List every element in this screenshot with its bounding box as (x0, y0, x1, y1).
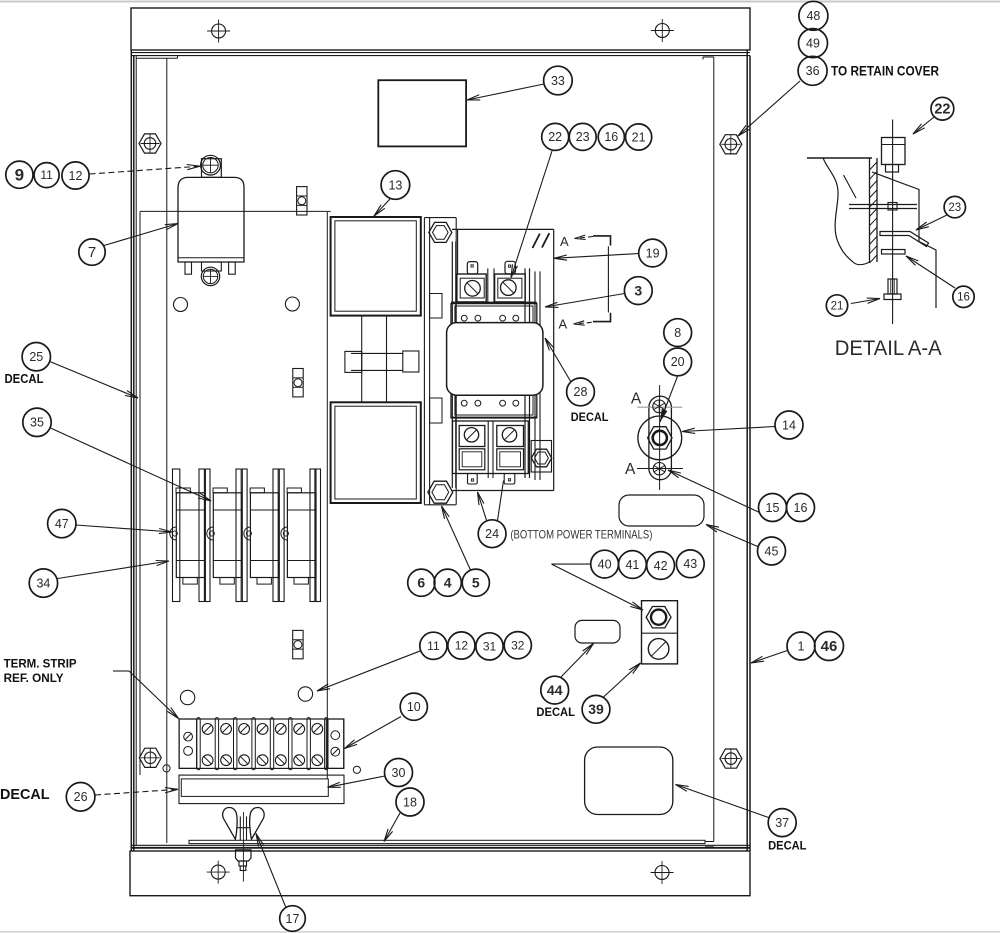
svg-text:DETAIL A-A: DETAIL A-A (835, 336, 943, 360)
svg-text:12: 12 (455, 639, 469, 653)
svg-text:DECAL: DECAL (536, 707, 575, 719)
svg-text:8: 8 (674, 326, 681, 340)
svg-text:DECAL: DECAL (5, 372, 44, 386)
svg-text:36: 36 (806, 64, 820, 78)
svg-text:34: 34 (36, 576, 50, 590)
svg-text:32: 32 (511, 638, 525, 652)
svg-text:33: 33 (551, 74, 565, 88)
svg-text:A: A (559, 317, 568, 332)
svg-text:46: 46 (821, 638, 838, 655)
svg-text:A: A (625, 461, 636, 478)
svg-text:13: 13 (388, 178, 402, 192)
svg-text:16: 16 (794, 501, 808, 515)
svg-text:TERM. STRIP: TERM. STRIP (4, 656, 77, 670)
svg-text:31: 31 (483, 639, 497, 653)
svg-text:10: 10 (407, 700, 421, 714)
svg-text:A: A (560, 234, 569, 249)
svg-text:43: 43 (683, 557, 697, 571)
svg-text:A: A (631, 390, 642, 407)
svg-text:22: 22 (934, 102, 950, 118)
svg-text:7: 7 (88, 244, 96, 261)
svg-text:49: 49 (806, 36, 820, 50)
svg-text:DECAL: DECAL (0, 786, 50, 803)
svg-text:23: 23 (576, 130, 590, 144)
svg-text:25: 25 (29, 350, 43, 364)
svg-text:12: 12 (69, 169, 83, 183)
svg-text:4: 4 (444, 574, 452, 590)
svg-text:40: 40 (598, 557, 612, 571)
svg-text:3: 3 (634, 282, 642, 298)
svg-text:15: 15 (766, 501, 780, 515)
svg-text:21: 21 (831, 300, 844, 312)
svg-text:18: 18 (403, 795, 417, 809)
svg-text:41: 41 (625, 558, 639, 572)
svg-text:19: 19 (646, 246, 660, 260)
svg-text:DECAL: DECAL (571, 412, 609, 424)
svg-text:9: 9 (15, 165, 24, 184)
svg-text:45: 45 (765, 544, 779, 558)
svg-text:(BOTTOM POWER TERMINALS): (BOTTOM POWER TERMINALS) (510, 528, 652, 542)
svg-text:21: 21 (632, 130, 646, 144)
svg-text:20: 20 (671, 355, 685, 369)
svg-text:26: 26 (74, 790, 88, 804)
svg-text:23: 23 (948, 202, 961, 214)
svg-text:28: 28 (574, 385, 588, 399)
svg-text:35: 35 (30, 416, 44, 430)
svg-text:11: 11 (427, 639, 440, 653)
svg-text:1: 1 (798, 639, 805, 653)
svg-text:44: 44 (547, 682, 563, 698)
svg-text:14: 14 (782, 418, 796, 432)
svg-text:11: 11 (40, 168, 53, 182)
svg-text:47: 47 (55, 517, 69, 531)
svg-text:30: 30 (392, 766, 406, 780)
svg-text:TO RETAIN COVER: TO RETAIN COVER (831, 64, 939, 79)
svg-text:DECAL: DECAL (768, 841, 806, 853)
svg-text:6: 6 (417, 574, 425, 590)
svg-text:39: 39 (588, 701, 604, 717)
svg-text:22: 22 (548, 130, 562, 144)
svg-text:48: 48 (806, 9, 820, 23)
svg-text:24: 24 (485, 527, 499, 541)
svg-text:17: 17 (286, 912, 300, 926)
svg-text:16: 16 (604, 130, 618, 144)
svg-text:REF. ONLY: REF. ONLY (4, 671, 64, 685)
svg-text:42: 42 (654, 559, 668, 573)
svg-text:5: 5 (472, 574, 480, 590)
svg-text:37: 37 (775, 816, 789, 830)
svg-text:16: 16 (957, 292, 970, 304)
